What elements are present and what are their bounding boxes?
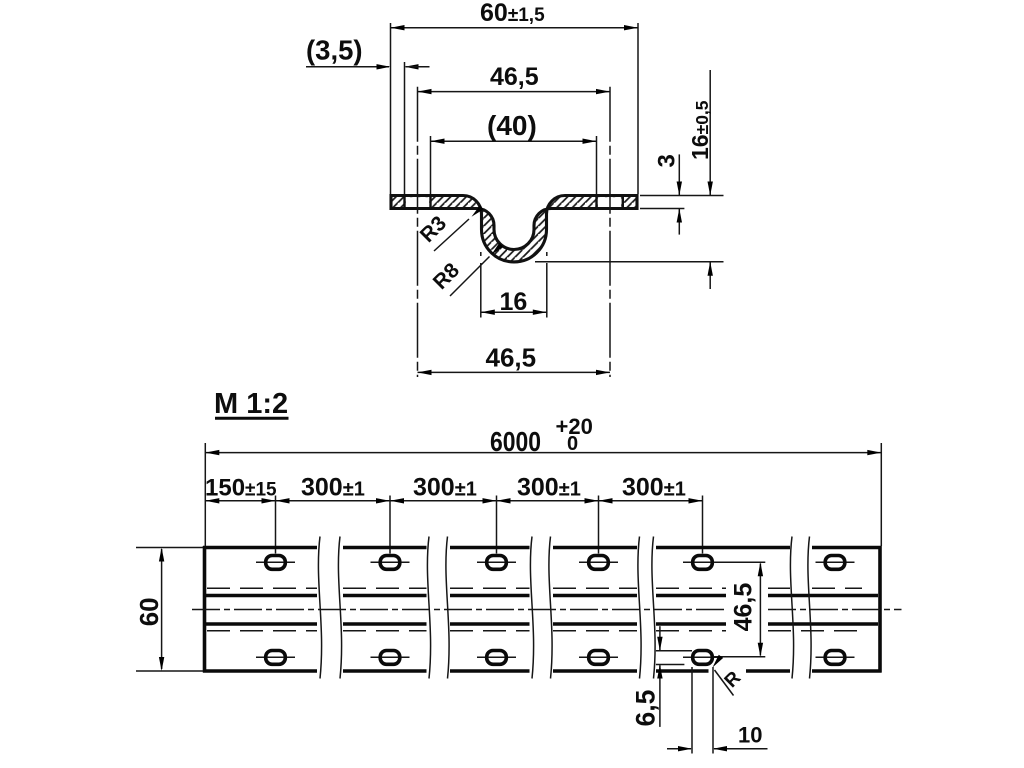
svg-text:46,5: 46,5 — [730, 583, 758, 632]
break lines (pair 2) — [427, 537, 449, 679]
svg-text:10: 10 — [738, 723, 762, 748]
hole centerline ticks bottom row — [256, 656, 855, 658]
svg-text:M 1:2: M 1:2 — [214, 388, 288, 420]
svg-text:6,5: 6,5 — [631, 690, 661, 727]
svg-text:0: 0 — [567, 433, 578, 455]
svg-text:60: 60 — [134, 597, 164, 626]
svg-text:(40): (40) — [487, 110, 537, 141]
dimension 10 (hole length) — [667, 667, 768, 754]
rail centerline (dash-dot) — [192, 609, 902, 611]
svg-text:3: 3 — [654, 154, 681, 167]
dimension 60 (rail width, left) — [134, 548, 203, 672]
hidden edge dashed line upper — [207, 587, 862, 589]
rail outline — [205, 546, 881, 673]
hole edge lines left hole — [405, 194, 431, 209]
break lines (pair 3) — [530, 537, 552, 679]
dimension 46,5 (hole rows distance) — [714, 562, 766, 656]
rail top edge segments — [203, 546, 882, 550]
chain dimensions 150±15 / 300±1 row — [205, 474, 703, 554]
hat profile cross-section (metal band, hatched) — [391, 196, 637, 262]
slot holes top row — [266, 556, 845, 570]
dimension 60±1,5 — [391, 0, 639, 194]
dimension 6000 +20/0 — [205, 414, 881, 546]
dimension 6,5 (hole width) — [631, 626, 693, 727]
svg-text:300±1: 300±1 — [517, 474, 581, 502]
svg-text:150±15: 150±15 — [205, 475, 277, 502]
trough edge upper (thick) — [206, 594, 878, 598]
scale label M 1:2 — [214, 388, 289, 420]
leader R8 — [429, 243, 503, 296]
dimension 3 (sheet thickness, right) — [640, 154, 724, 234]
svg-text:46,5: 46,5 — [490, 63, 539, 91]
dimension 16 (trough width) — [481, 252, 547, 318]
hole edge lines right hole — [597, 194, 623, 209]
trough edge lower (thick) — [206, 622, 878, 626]
svg-text:16: 16 — [500, 288, 528, 316]
flange hole gap left (section through slot) — [406, 197, 429, 207]
svg-text:300±1: 300±1 — [301, 474, 365, 502]
leader R (hole corner radius) — [710, 655, 745, 696]
dimension 16±0,5 (depth, right) — [535, 70, 724, 289]
dimension 46,5 bottom (cross-section) — [418, 343, 611, 376]
rail bottom edge segments — [203, 669, 882, 673]
svg-text:300±1: 300±1 — [413, 474, 477, 502]
dimension 46,5 top — [418, 63, 611, 377]
hidden edge dashed line lower — [207, 630, 862, 632]
flange hole gap right — [598, 197, 621, 207]
break lines (pair 5) — [790, 537, 811, 679]
svg-text:60±1,5: 60±1,5 — [480, 0, 545, 27]
slot holes bottom row — [266, 651, 845, 665]
svg-text:300±1: 300±1 — [622, 474, 686, 502]
dimension (40) — [431, 110, 597, 194]
break lines (pair 4) — [638, 537, 655, 679]
dimension (3,5) leader — [306, 35, 430, 195]
svg-text:46,5: 46,5 — [486, 343, 537, 373]
hole centerline ticks top row — [256, 561, 855, 563]
leader R3 — [416, 205, 484, 251]
break lines (pair 1) — [318, 537, 341, 679]
svg-text:(3,5): (3,5) — [306, 35, 363, 66]
svg-text:6000: 6000 — [490, 426, 541, 457]
